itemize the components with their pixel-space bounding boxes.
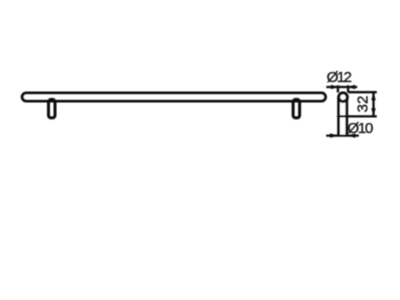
svg-text:Ø10: Ø10 (347, 120, 372, 137)
svg-text:Ø12: Ø12 (327, 69, 352, 86)
svg-text:32: 32 (354, 96, 371, 113)
